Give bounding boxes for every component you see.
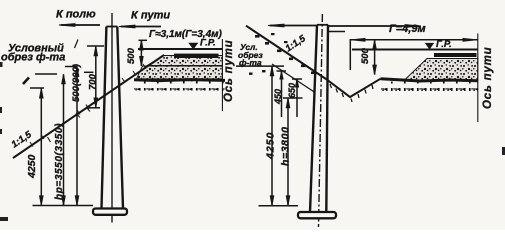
svg-text:500(900): 500(900) [71,64,82,102]
svg-text:h=3800: h=3800 [280,126,292,166]
svg-text:Г.Р.: Г.Р. [200,38,216,49]
svg-text:Г.Р.: Г.Р. [436,39,452,50]
svg-text:450: 450 [273,89,283,105]
svg-text:К пути: К пути [131,10,170,22]
svg-text:4250: 4250 [265,132,277,160]
svg-text:К полю: К полю [56,9,96,21]
svg-text:1:1,5: 1:1,5 [284,33,309,55]
svg-text:hp=3550(3350): hp=3550(3350) [54,123,65,200]
svg-text:Г=4,9м: Г=4,9м [389,23,426,35]
svg-text:Ось пути: Ось пути [482,47,494,109]
svg-text:Ось пути: Ось пути [223,40,235,102]
svg-text:4250: 4250 [26,154,38,179]
svg-text:обрез ф-та: обрез ф-та [1,52,65,64]
svg-text:500: 500 [126,47,137,64]
svg-text:650: 650 [287,83,297,98]
svg-text:700: 700 [87,73,98,90]
